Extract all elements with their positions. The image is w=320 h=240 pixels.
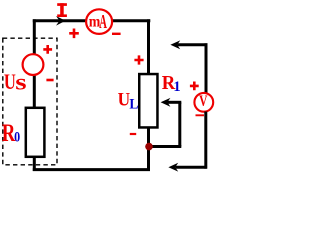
ammeter mA — [86, 9, 112, 34]
voltmeter V — [194, 93, 213, 112]
wire: wiper vertical — [178, 102, 181, 146]
plus of load — [134, 55, 143, 64]
voltmeter top probe arrowhead — [170, 40, 180, 49]
wire: voltmeter top horizontal — [177, 43, 207, 46]
svg-text:L: L — [129, 96, 138, 113]
minus of load — [130, 133, 136, 135]
wire: top right segment — [112, 19, 150, 22]
wire: right vertical upper — [147, 19, 150, 74]
wire: left vertical upper — [33, 19, 36, 54]
svg-text:0: 0 — [14, 129, 20, 145]
wire: left vertical lower — [33, 158, 36, 172]
resistor R0 — [26, 108, 45, 157]
junction node dot — [145, 143, 153, 151]
minus of source — [46, 79, 53, 82]
plus of source — [43, 45, 52, 54]
wire: voltmeter bottom vertical — [204, 112, 207, 169]
svg-text:U: U — [118, 89, 131, 110]
label I — [57, 3, 67, 17]
current arrow on top wire — [56, 16, 66, 26]
svg-text:s: s — [15, 69, 26, 95]
label Us — [4, 71, 16, 95]
plus of ammeter — [69, 29, 79, 39]
svg-text:U: U — [4, 71, 16, 95]
svg-text:V: V — [199, 92, 207, 109]
svg-text:A: A — [99, 10, 107, 33]
minus of ammeter — [112, 33, 121, 35]
wire: bottom — [33, 168, 150, 171]
svg-text:1: 1 — [173, 79, 180, 95]
plus of voltmeter — [190, 82, 199, 91]
label R0 — [2, 118, 16, 146]
wire: wiper horizontal — [167, 101, 181, 104]
load resistor R1 — [139, 74, 157, 127]
voltage source Us (circle) — [23, 54, 44, 75]
minus of voltmeter — [196, 114, 205, 116]
wiper arrow of R1 (rheostat) — [161, 98, 171, 107]
wire: top left segment — [33, 19, 86, 22]
wire: left vertical middle — [33, 75, 36, 108]
wire: voltmeter top vertical — [205, 43, 208, 93]
wire: voltmeter bottom horizontal — [175, 166, 206, 169]
voltmeter bottom probe arrowhead — [168, 163, 178, 172]
wire: right vertical lower (load to bottom) — [147, 128, 150, 171]
wire: junction horizontal — [149, 145, 182, 148]
label R1 — [162, 72, 176, 94]
label UL — [118, 89, 131, 110]
dashed box (real source boundary) — [3, 38, 57, 165]
